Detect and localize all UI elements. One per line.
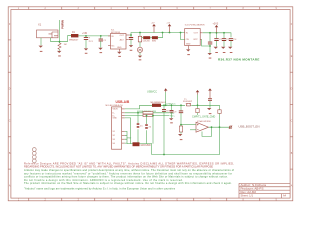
wire D- — [125, 112, 143, 114]
supply +5V arrow on wire end — [197, 92, 199, 94]
IC1 pin names — [112, 35, 125, 49]
wire to diode — [68, 36, 72, 42]
capacitor C11 (divider top) — [180, 104, 182, 106]
svg-text:+5V: +5V — [151, 22, 155, 24]
op-amp IC5A — [196, 122, 209, 132]
feedback loop — [202, 127, 212, 136]
svg-text:IC5A LMV358: IC5A LMV358 — [197, 120, 211, 123]
resistor R12 below +5V node — [197, 105, 199, 108]
frame grid ticks top — [29, 7, 260, 10]
wire VBUS — [125, 105, 152, 109]
svg-text:+VIN: +VIN — [82, 33, 88, 35]
wire ground loop bottom — [127, 127, 220, 154]
IC2 pins — [189, 33, 203, 49]
varistor Z1 — [137, 113, 139, 123]
sheet frame inner border — [11, 10, 290, 199]
svg-text:USB_BOOT_EN: USB_BOOT_EN — [239, 127, 260, 129]
svg-text:ADJ: ADJ — [120, 39, 124, 42]
resistor RN3A — [143, 112, 153, 114]
ground (IC2) — [186, 49, 190, 51]
sheet frame outer border — [8, 7, 293, 201]
mounting hole pads — [32, 148, 36, 163]
svg-text:BYP: BYP — [194, 39, 199, 41]
wire T1 to gate node — [191, 104, 219, 106]
svg-text:PWRIN: PWRIN — [61, 20, 65, 29]
svg-text:The product information on the: The product information on the Web Site … — [24, 181, 232, 185]
svg-text:S3: S3 — [113, 139, 115, 141]
capacitor C10 (BYP) — [209, 32, 211, 34]
diode D2 CD1206 — [142, 37, 144, 39]
capacitor C right of IC1 — [130, 34, 132, 36]
junction +5V rail nodes — [139, 32, 141, 34]
IC1 pins — [108, 35, 130, 52]
svg-text:R36,R37 NON MONTARE: R36,R37 NON MONTARE — [218, 57, 260, 61]
diode D1 body — [71, 34, 78, 37]
svg-text:VBUS: VBUS — [113, 109, 119, 111]
wire jack pin1 down — [51, 38, 68, 42]
svg-text:USB-A/B: USB-A/B — [116, 99, 130, 104]
wire minus input stub — [190, 129, 196, 131]
IC2 pin names — [186, 32, 199, 45]
frame grid numbers top — [18, 8, 278, 10]
net port flag (op-amp output) — [229, 126, 232, 129]
junction Z2 — [146, 115, 148, 117]
supply +3V3 arrow — [216, 27, 218, 33]
capacitor C2 — [216, 33, 218, 39]
svg-text:X1: X1 — [38, 22, 42, 26]
junction Z1 — [137, 112, 139, 114]
junction PC1 — [85, 35, 87, 37]
svg-text:MRA4007: MRA4007 — [69, 38, 79, 41]
ground (IC1) — [117, 52, 121, 54]
regulator IC2 body — [185, 29, 201, 46]
resistor RN1 (LED series) — [139, 33, 141, 37]
ground (R1) — [57, 51, 61, 53]
supply +5V arrow (second) — [169, 26, 171, 32]
wire GND pin — [125, 118, 131, 144]
LED L1 ON — [137, 47, 142, 52]
USB connector X2 body — [112, 107, 122, 149]
diode D3 SMD — [152, 36, 158, 39]
fuse F1 body — [152, 104, 161, 107]
X2 pin stubs shield — [122, 131, 125, 143]
jack ground wire — [40, 38, 42, 46]
wire to opamp plus input — [181, 124, 196, 126]
wire fuse to T1 — [161, 104, 185, 106]
wire BYP jog — [202, 39, 211, 46]
ground (PC1) — [84, 48, 88, 50]
svg-text:+5V: +5V — [166, 22, 170, 24]
svg-text:S2: S2 — [113, 135, 115, 137]
svg-text:CD1206: CD1206 — [143, 41, 150, 43]
svg-text:Sheet: 1/1: Sheet: 1/1 — [241, 194, 254, 197]
capacitor C3 — [223, 33, 225, 39]
supply +5V arrow — [153, 26, 155, 32]
svg-text:GND: GND — [117, 47, 122, 49]
wire shield pins — [125, 131, 127, 143]
wire RD- — [153, 112, 170, 114]
wire IC2 out rail — [203, 33, 231, 37]
ground (opamp cap) — [207, 108, 211, 110]
svg-text:S1: S1 — [113, 131, 115, 133]
ground (C input) — [98, 48, 102, 50]
svg-text:CMP/T1_GATE_CMD: CMP/T1_GATE_CMD — [192, 116, 215, 119]
frame grid letters left — [9, 24, 11, 188]
resistor RN3B — [143, 114, 153, 116]
capacitor C8 — [163, 104, 165, 106]
svg-text:USBVCC: USBVCC — [147, 91, 157, 94]
svg-text:IC2 LP2985-33DBVR: IC2 LP2985-33DBVR — [185, 24, 205, 26]
svg-text:GND: GND — [127, 138, 132, 140]
wire diode to regulator — [78, 35, 110, 37]
wire D+ — [125, 115, 143, 117]
svg-text:S4: S4 — [113, 143, 115, 145]
svg-text:1M: 1M — [64, 44, 67, 46]
supply arrow USBVCC — [165, 88, 167, 92]
svg-text:"Arduino" name and logo are tr: "Arduino" name and logo are trademarks r… — [24, 187, 176, 191]
junction C input — [100, 35, 102, 37]
vertical drop after RN3B — [152, 115, 154, 117]
capacitor C4 — [229, 39, 233, 41]
transistor T1 body — [186, 103, 191, 106]
ground (divider) — [178, 134, 182, 136]
frame grid letters right — [291, 24, 293, 188]
svg-text:GND: GND — [113, 118, 118, 120]
capacitor C (reg input) — [100, 36, 102, 39]
junction PWRIN node — [59, 41, 61, 43]
opamp output wire — [209, 126, 232, 128]
wire PWRIN vertical — [59, 20, 61, 42]
power jack X1 body — [37, 30, 59, 38]
frame grid numbers bottom — [18, 199, 278, 201]
frame grid ticks left — [8, 40, 11, 169]
svg-text:FDN340P: FDN340P — [183, 101, 193, 103]
wire IC1 out to +5V rail — [130, 33, 185, 36]
resistor R13 (gate) on vertical — [219, 105, 221, 110]
wire RD+ — [153, 115, 170, 117]
frame grid ticks right — [290, 40, 293, 169]
ground (jack) — [39, 46, 43, 48]
resistor R11 (divider bottom) — [180, 125, 182, 126]
X2 pin names — [113, 109, 119, 145]
junctions on 3v3 rail — [216, 32, 218, 34]
resistor R1 below PWRIN junction — [59, 42, 61, 43]
frame grid ticks bottom — [29, 198, 260, 201]
capacitor PC1 — [85, 36, 87, 37]
ground tag — [133, 142, 140, 146]
svg-text:SMD: SMD — [152, 41, 157, 43]
capacitor C9 — [171, 104, 173, 106]
svg-text:RD+: RD+ — [170, 116, 175, 118]
X2 pin stubs upper — [122, 109, 125, 118]
varistor Z2 — [146, 116, 148, 125]
capacitor C12 (op-amp supply) with +5V arrow — [209, 91, 211, 99]
svg-text:+3V3: +3V3 — [213, 23, 219, 26]
regulator IC1 body — [111, 34, 127, 50]
svg-text:GND: GND — [186, 44, 191, 46]
wire EN jog — [181, 33, 185, 40]
svg-text:GROUND: GROUND — [141, 145, 152, 147]
